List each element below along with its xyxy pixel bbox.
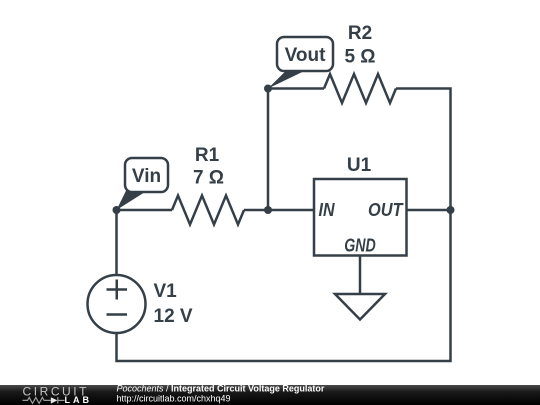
wire left rail: Vin node down to V1 top	[115, 210, 118, 275]
svg-text:Vout: Vout	[285, 45, 326, 66]
node Vout junction dot	[264, 85, 272, 93]
resistor R2 zigzag body	[324, 74, 396, 103]
V1 plus sign	[107, 280, 128, 300]
svg-text:V1: V1	[154, 281, 178, 302]
resistor R1 zigzag body	[172, 196, 244, 225]
node Vin junction dot	[113, 206, 121, 214]
svg-text:12 V: 12 V	[154, 306, 193, 327]
svg-text:GND: GND	[344, 236, 376, 256]
svg-text:http://circuitlab.com/chxhq49: http://circuitlab.com/chxhq49	[117, 394, 231, 404]
svg-text:Vin: Vin	[132, 166, 161, 187]
svg-text:LAB: LAB	[65, 395, 90, 405]
wire outer loop: V1 bottom, bottom rail, right rail up to R2 right terminal	[117, 89, 451, 362]
node label Vout callout	[268, 37, 333, 89]
V1 minus sign	[107, 313, 128, 316]
wire U1 GND pin stem	[359, 256, 362, 295]
footer bar	[0, 385, 540, 405]
wire node A to U1 IN pin	[268, 209, 314, 212]
svg-text:5 Ω: 5 Ω	[344, 47, 375, 68]
node label Vin callout	[117, 158, 169, 210]
wire U1 OUT pin to node B	[407, 209, 451, 212]
svg-text:Pocochents / Integrated Circui: Pocochents / Integrated Circuit Voltage …	[117, 384, 325, 394]
voltage source V1 circle	[88, 275, 146, 333]
node B junction dot (OUT/right rail)	[447, 206, 455, 214]
wire R1 right terminal to node A	[244, 209, 268, 212]
svg-text:R2: R2	[348, 23, 372, 44]
svg-text:R1: R1	[195, 145, 220, 166]
wire Vout rail: Vout node down to node A	[267, 89, 270, 211]
ground	[335, 294, 385, 320]
svg-text:OUT: OUT	[368, 200, 404, 220]
wire Vin node to R1 left terminal	[117, 209, 173, 212]
node A junction dot (R1/U1 IN/Vout rail)	[264, 206, 272, 214]
CircuitLab logo diode triangle	[51, 397, 58, 403]
op-amp U1 box	[314, 179, 407, 256]
svg-text:U1: U1	[347, 155, 372, 176]
CircuitLab logo resistor-diode squiggle	[23, 397, 65, 403]
wire Vout node to R2 left terminal	[268, 87, 324, 90]
svg-text:IN: IN	[319, 200, 336, 220]
svg-text:7 Ω: 7 Ω	[193, 168, 224, 189]
